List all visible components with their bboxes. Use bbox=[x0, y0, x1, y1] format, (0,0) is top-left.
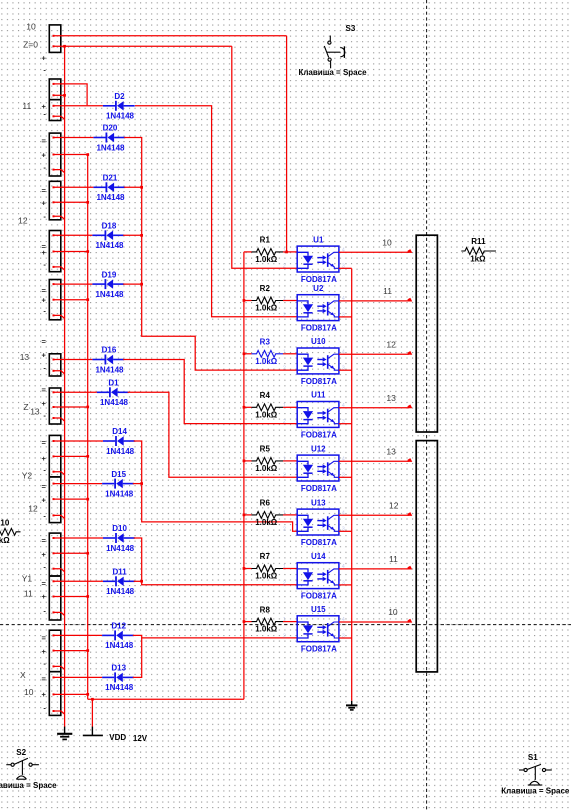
svg-text:1N4148: 1N4148 bbox=[106, 112, 135, 121]
wire bus to R7 bbox=[244, 568, 252, 570]
svg-text:1N4148: 1N4148 bbox=[95, 290, 124, 299]
wire J13 pin hook to bus1 bbox=[55, 666, 65, 669]
pin of J6 at y=299.7 bbox=[53, 299, 55, 301]
svg-text:R2: R2 bbox=[260, 284, 271, 293]
wire J12 pin to D11 bbox=[55, 580, 104, 582]
svg-text:1N4148: 1N4148 bbox=[106, 447, 135, 456]
connector J2a bbox=[49, 79, 61, 100]
svg-text:U1: U1 bbox=[313, 235, 324, 244]
pin of J8 at y=392.3 bbox=[53, 391, 55, 393]
wire U2.3 to gnd bus bbox=[339, 316, 352, 318]
svg-text:D21: D21 bbox=[103, 174, 118, 183]
wire U11.3 to gnd bus bbox=[339, 423, 352, 425]
pin of J2b at y=105.8 bbox=[53, 105, 55, 107]
wire R3 to U10.1 bbox=[283, 353, 297, 355]
wire J8 pin to D1 bbox=[55, 391, 97, 393]
svg-text:1: 1 bbox=[283, 403, 286, 409]
svg-text:R10: R10 bbox=[0, 519, 10, 528]
svg-text:+: + bbox=[42, 295, 47, 304]
opto-coupler U10 FOD817A bbox=[283, 337, 345, 386]
connector J-top bbox=[49, 25, 61, 53]
svg-text:2: 2 bbox=[283, 264, 286, 270]
svg-text:10: 10 bbox=[382, 238, 392, 248]
svg-text:13: 13 bbox=[30, 406, 40, 416]
pin of J12 at y=596.5 bbox=[53, 596, 55, 598]
pin of J3 at y=169.6 bbox=[53, 169, 55, 171]
wire J6 pin to D19 bbox=[55, 283, 93, 285]
pin of J4 at y=216.3 bbox=[53, 215, 55, 217]
connector J6 bbox=[49, 280, 61, 320]
svg-text:1: 1 bbox=[283, 456, 286, 462]
svg-text:FOD817A: FOD817A bbox=[301, 592, 337, 601]
svg-text:1.0kΩ: 1.0kΩ bbox=[255, 357, 278, 366]
svg-text:Клавиша = Space: Клавиша = Space bbox=[0, 781, 57, 790]
svg-text:+: + bbox=[42, 647, 47, 656]
svg-text:=: = bbox=[42, 438, 47, 447]
svg-text:+: + bbox=[42, 496, 47, 505]
junction bus2 y=154 bbox=[86, 153, 89, 156]
svg-text:=: = bbox=[42, 186, 47, 195]
svg-text:1: 1 bbox=[283, 247, 286, 253]
pin of J6 at y=315.4 bbox=[53, 314, 55, 316]
junction bus/R2 bbox=[243, 299, 246, 302]
wire bus to R3 bbox=[244, 353, 252, 355]
junction bus1/J2a.2 bbox=[63, 94, 66, 97]
wire U15.3 to gnd bus bbox=[339, 637, 352, 639]
wire J4 pin to bus2 bbox=[55, 201, 88, 203]
svg-text:+: + bbox=[42, 592, 47, 601]
connector J2b bbox=[49, 100, 61, 121]
svg-text:13: 13 bbox=[386, 393, 396, 403]
diode D18 1N4148 bbox=[92, 222, 124, 251]
connector J13 bbox=[49, 630, 61, 672]
pin of J5 at y=235.3 bbox=[53, 234, 55, 236]
svg-text:+: + bbox=[42, 150, 47, 159]
svg-text:S3: S3 bbox=[346, 24, 356, 33]
wire R2 to U2.1 bbox=[283, 300, 297, 302]
wire J8 pin to bus2 bbox=[55, 406, 88, 408]
svg-text:1: 1 bbox=[283, 349, 286, 355]
svg-text:+: + bbox=[42, 199, 47, 208]
svg-text:R8: R8 bbox=[260, 605, 271, 614]
wire J2b pin to D2 bbox=[55, 105, 103, 107]
connector J10 bbox=[49, 477, 61, 523]
wire J3 pin to bus2 bbox=[55, 154, 88, 156]
wire net D14 to U13.2 bbox=[134, 441, 298, 531]
junction bus2 y=553 bbox=[86, 552, 89, 555]
ground (right, opto emitters) bbox=[346, 701, 357, 710]
wire net Jtop.2 to U1.2 bbox=[232, 46, 297, 268]
svg-text:S1: S1 bbox=[528, 753, 538, 762]
svg-text:FOD817A: FOD817A bbox=[301, 377, 337, 386]
junction bus/R3 bbox=[243, 352, 246, 355]
pin of J11 at y=568.7 bbox=[53, 568, 55, 570]
svg-text:D16: D16 bbox=[102, 346, 117, 355]
svg-text:2: 2 bbox=[283, 633, 286, 639]
svg-text:+: + bbox=[42, 248, 47, 257]
svg-text:=: = bbox=[42, 634, 47, 643]
svg-text:1.0kΩ: 1.0kΩ bbox=[255, 518, 278, 527]
wire U1.4 output bbox=[339, 251, 409, 253]
wire net D16 to U11.2 bbox=[123, 360, 297, 424]
junction bus2 y=596 bbox=[86, 595, 89, 598]
svg-text:Y1: Y1 bbox=[22, 574, 33, 584]
output arrow 10 bbox=[408, 619, 413, 623]
svg-text:R4: R4 bbox=[260, 391, 271, 400]
wire J11 pin hook to bus1 bbox=[55, 569, 65, 572]
wire VDD rail horizontal y=699 bbox=[88, 698, 244, 700]
switch S3 (key = Space) bbox=[324, 36, 345, 69]
svg-text:=: = bbox=[42, 385, 47, 394]
wire J2b pin hook to bus1 bbox=[55, 116, 65, 119]
wire net Jtop.1 to R1 out bbox=[286, 36, 288, 252]
svg-text:U11: U11 bbox=[311, 391, 326, 400]
connector J14 bbox=[49, 672, 61, 716]
connector J4 bbox=[49, 181, 61, 220]
svg-text:FOD817A: FOD817A bbox=[301, 645, 337, 654]
wire bus to R8 bbox=[244, 621, 252, 623]
connector (right bottom) bbox=[416, 441, 437, 672]
output arrow 13 bbox=[408, 458, 413, 462]
wire U13.4 output bbox=[339, 514, 409, 516]
junction VDD tap bbox=[91, 698, 94, 701]
diode D14 1N4148 bbox=[103, 427, 135, 456]
svg-text:D1: D1 bbox=[108, 379, 119, 388]
svg-text:=: = bbox=[42, 137, 47, 146]
svg-text:R11: R11 bbox=[471, 237, 486, 246]
opto-coupler U15 FOD817A bbox=[283, 605, 345, 654]
wire J2a.2 to bus1 bbox=[55, 94, 65, 96]
connector J9 bbox=[49, 435, 61, 477]
svg-text:U15: U15 bbox=[311, 605, 326, 614]
wire U11.4 output bbox=[339, 407, 409, 409]
svg-text:1: 1 bbox=[283, 564, 286, 570]
svg-text:+: + bbox=[42, 399, 47, 408]
svg-text:FOD817A: FOD817A bbox=[301, 430, 337, 439]
diode D1 1N4148 bbox=[97, 379, 129, 408]
junction bus2 y=407 bbox=[86, 406, 89, 409]
svg-text:2: 2 bbox=[283, 366, 286, 372]
switch S2 (key = Space) bbox=[6, 758, 39, 779]
connector J11 bbox=[49, 533, 61, 576]
diode D21 1N4148 bbox=[93, 174, 125, 203]
pin of J8 at y=407.0 bbox=[53, 406, 55, 408]
wire J10 pin hook to bus1 bbox=[55, 515, 65, 518]
page boundary (horizontal dashed) bbox=[0, 624, 571, 626]
svg-text:11: 11 bbox=[383, 286, 392, 296]
wire net D2 to U2.2 bbox=[135, 106, 297, 317]
opto-coupler U2 FOD817A bbox=[283, 284, 345, 333]
svg-text:R1: R1 bbox=[260, 236, 271, 245]
wire J13 pin to bus2 bbox=[55, 650, 88, 652]
wire net D20 to U10.2 bbox=[124, 138, 297, 371]
wire U2.4 output bbox=[339, 300, 409, 302]
wire U1.3 to gnd bus bbox=[339, 267, 352, 269]
svg-text:FOD817A: FOD817A bbox=[301, 275, 337, 284]
svg-text:1.0kΩ: 1.0kΩ bbox=[255, 572, 278, 581]
wire D13 up to U15.2 net bbox=[133, 638, 142, 678]
wire U10.3 to gnd bus bbox=[339, 369, 352, 371]
wire J11 pin to D10 bbox=[55, 537, 104, 539]
svg-text:+: + bbox=[42, 351, 47, 360]
svg-text:VDD: VDD bbox=[109, 733, 126, 742]
pin of J11 at y=553.3 bbox=[53, 552, 55, 554]
svg-text:1.0kΩ: 1.0kΩ bbox=[255, 304, 278, 313]
wire U14.3 to gnd bus bbox=[339, 584, 352, 586]
diode D16 1N4148 bbox=[92, 346, 124, 375]
junction bus2 y=300 bbox=[86, 298, 89, 301]
wire R5 to U12.1 bbox=[283, 460, 297, 462]
svg-text:FOD817A: FOD817A bbox=[301, 538, 337, 547]
pin of J-top at y=46.3 bbox=[53, 45, 55, 47]
svg-text:1N4148: 1N4148 bbox=[106, 587, 135, 596]
pin of J9 at y=471.7 bbox=[53, 471, 55, 473]
ground (left, bottom of bus1) bbox=[57, 727, 72, 740]
pin of J10 at y=483.6 bbox=[53, 483, 55, 485]
wire J2a.1 elbow to D2 net bbox=[55, 84, 88, 105]
wire J5 pin to bus2 bbox=[55, 251, 88, 253]
pin of J12 at y=581.3 bbox=[53, 580, 55, 582]
svg-text:D15: D15 bbox=[111, 470, 126, 479]
wire U14.4 output bbox=[339, 568, 409, 570]
wire R1 to U1.1 bbox=[283, 251, 297, 253]
svg-text:12: 12 bbox=[389, 501, 399, 511]
svg-text:12: 12 bbox=[18, 216, 28, 226]
wire bus to R5 bbox=[244, 460, 252, 462]
svg-text:2: 2 bbox=[283, 312, 286, 318]
svg-text:Y2: Y2 bbox=[22, 470, 33, 480]
svg-text:D12: D12 bbox=[111, 622, 126, 631]
junction D21/bus bbox=[140, 186, 143, 189]
wire net D10 to U14.2 bbox=[134, 538, 298, 585]
connector J12 bbox=[49, 576, 61, 620]
svg-text:FOD817A: FOD817A bbox=[301, 484, 337, 493]
junction D11/bus bbox=[140, 580, 143, 583]
pin of J12 at y=612.4 bbox=[53, 611, 55, 613]
diode D20 1N4148 bbox=[93, 124, 125, 153]
svg-text:=: = bbox=[42, 286, 47, 295]
svg-text:S2: S2 bbox=[16, 748, 26, 757]
wire J7 pin hook to bus1 bbox=[55, 371, 65, 374]
junction R1out bbox=[285, 251, 288, 254]
svg-text:Клавиша = Space: Клавиша = Space bbox=[298, 68, 367, 77]
opto-coupler U11 FOD817A bbox=[283, 391, 345, 440]
svg-text:1: 1 bbox=[283, 617, 286, 623]
wire R4 to U11.1 bbox=[283, 406, 297, 408]
wire J9 pin to D14 bbox=[55, 440, 104, 442]
svg-text:1.0kΩ: 1.0kΩ bbox=[255, 410, 278, 419]
svg-text:D10: D10 bbox=[112, 524, 127, 533]
svg-text:D14: D14 bbox=[112, 427, 127, 436]
junction D18/bus bbox=[140, 234, 143, 237]
pin of J3 at y=154.5 bbox=[53, 154, 55, 156]
pin of J2a at y=83.9 bbox=[53, 83, 55, 85]
wire D18 out bbox=[123, 234, 142, 236]
pin of J7 at y=359.5 bbox=[53, 359, 55, 361]
wire D21 out bbox=[124, 186, 142, 188]
pin of J10 at y=515.4 bbox=[53, 514, 55, 516]
wire J7 pin to D16 bbox=[55, 359, 93, 361]
wire D15 out bbox=[133, 483, 142, 485]
page boundary (vertical dashed) bbox=[426, 0, 428, 812]
svg-text:D2: D2 bbox=[114, 92, 125, 101]
pin of J14 at y=694.4 bbox=[53, 693, 55, 695]
svg-text:11: 11 bbox=[22, 101, 31, 111]
svg-text:U14: U14 bbox=[311, 552, 326, 561]
diode D11 1N4148 bbox=[103, 568, 135, 597]
wire VDD drop bbox=[91, 699, 93, 727]
svg-text:2: 2 bbox=[283, 419, 286, 425]
svg-text:1N4148: 1N4148 bbox=[95, 241, 124, 250]
diode D13 1N4148 bbox=[102, 664, 134, 693]
junction bus1 top bbox=[63, 45, 66, 48]
power VDD 12V bbox=[83, 727, 103, 736]
wire J3 pin to D20 bbox=[55, 137, 94, 139]
svg-text:10: 10 bbox=[388, 607, 398, 617]
svg-text:2: 2 bbox=[283, 580, 286, 586]
pin of J10 at y=499.1 bbox=[53, 498, 55, 500]
pin of J8 at y=418.0 bbox=[53, 417, 55, 419]
svg-text:=: = bbox=[42, 536, 47, 545]
svg-text:1N4148: 1N4148 bbox=[105, 489, 134, 498]
svg-text:1N4148: 1N4148 bbox=[96, 143, 125, 152]
wire J-top.2 to x231 bbox=[55, 45, 232, 47]
wire net D12 to U15.2 bbox=[133, 635, 297, 638]
connector (right top) bbox=[416, 235, 437, 432]
svg-text:Z: Z bbox=[23, 402, 28, 412]
svg-text:D13: D13 bbox=[111, 664, 126, 673]
junction bus2 y=499 bbox=[86, 498, 89, 501]
svg-text:1kΩ: 1kΩ bbox=[470, 255, 486, 264]
wire bus to R6 bbox=[244, 514, 252, 516]
wire J3 pin hook to bus1 bbox=[55, 170, 65, 173]
junction bus/R8 bbox=[243, 620, 246, 623]
pin of J6 at y=284.1 bbox=[53, 283, 55, 285]
svg-text:+: + bbox=[42, 53, 47, 62]
wire J11 pin to bus2 bbox=[55, 552, 88, 554]
svg-text:D19: D19 bbox=[102, 270, 117, 279]
junction bus/R7 bbox=[243, 567, 246, 570]
pin of J2a at y=95.3 bbox=[53, 94, 55, 96]
junction D19/bus bbox=[140, 283, 143, 286]
pin of J14 at y=711.0 bbox=[53, 710, 55, 712]
connector J8 bbox=[49, 388, 61, 424]
svg-text:10: 10 bbox=[24, 687, 34, 697]
wire J4 pin hook to bus1 bbox=[55, 216, 65, 219]
output arrow 12 bbox=[408, 512, 413, 516]
svg-text:U13: U13 bbox=[311, 498, 326, 507]
svg-text:FOD817A: FOD817A bbox=[301, 324, 337, 333]
wire bus1 (x=64.6) to ground bbox=[64, 46, 66, 727]
svg-text:D20: D20 bbox=[103, 124, 118, 133]
connector J3 bbox=[49, 133, 61, 176]
pin of J9 at y=456.4 bbox=[53, 455, 55, 457]
svg-text:=: = bbox=[42, 482, 47, 491]
svg-text:1N4148: 1N4148 bbox=[100, 398, 129, 407]
output arrow 11 bbox=[408, 566, 413, 570]
svg-text:1N4148: 1N4148 bbox=[96, 193, 125, 202]
svg-text:1.0kΩ: 1.0kΩ bbox=[255, 464, 278, 473]
svg-text:10: 10 bbox=[26, 21, 36, 31]
output arrow 10 bbox=[408, 249, 413, 253]
svg-text:D18: D18 bbox=[102, 222, 117, 231]
wire bus to R1 bbox=[244, 251, 252, 253]
wire J5 pin hook to bus1 bbox=[55, 267, 65, 270]
wire U10.4 output bbox=[339, 353, 409, 355]
svg-text:11: 11 bbox=[389, 554, 398, 564]
output arrow 12 bbox=[408, 351, 413, 355]
opto-coupler U12 FOD817A bbox=[283, 444, 345, 493]
svg-text:1: 1 bbox=[283, 296, 286, 302]
wire U15.4 output bbox=[339, 621, 409, 623]
wire J5 pin to D18 bbox=[55, 234, 93, 236]
svg-text:=: = bbox=[42, 579, 47, 588]
svg-text:13: 13 bbox=[386, 447, 396, 457]
svg-text:12V: 12V bbox=[133, 734, 148, 743]
svg-text:D11: D11 bbox=[112, 568, 127, 577]
wire J4 pin to D21 bbox=[55, 186, 94, 188]
switch S1 (key = Space) bbox=[519, 764, 552, 785]
pin of J11 at y=538.0 bbox=[53, 537, 55, 539]
opto-coupler U1 FOD817A bbox=[283, 235, 345, 284]
pin of J4 at y=202.3 bbox=[53, 201, 55, 203]
wire J6 pin hook to bus1 bbox=[55, 315, 65, 318]
wire J8 pin hook to bus1 bbox=[55, 418, 65, 421]
svg-text:12: 12 bbox=[28, 504, 38, 514]
svg-text:2: 2 bbox=[283, 527, 286, 533]
svg-text:+: + bbox=[42, 690, 47, 699]
wire R7 to U14.1 bbox=[283, 568, 297, 570]
wire D19 out bbox=[123, 283, 142, 285]
pin of J13 at y=666.4 bbox=[53, 665, 55, 667]
wire U13.3 to gnd bus bbox=[339, 530, 352, 532]
pin of J2b at y=116.3 bbox=[53, 115, 55, 117]
svg-text:=: = bbox=[42, 675, 47, 684]
pin of J4 at y=187.3 bbox=[53, 186, 55, 188]
wire bus2 (x=87.7) bbox=[87, 155, 89, 700]
opto-coupler U13 FOD817A bbox=[283, 498, 345, 547]
svg-text:+: + bbox=[42, 550, 47, 559]
diode D12 1N4148 bbox=[102, 622, 134, 651]
wire J9 pin to bus2 bbox=[55, 455, 88, 457]
svg-text:12: 12 bbox=[386, 339, 396, 349]
svg-text:13: 13 bbox=[20, 352, 30, 362]
junction bus/R5 bbox=[243, 460, 246, 463]
pin of J7 at y=370.8 bbox=[53, 370, 55, 372]
svg-text:11: 11 bbox=[24, 589, 33, 599]
opto-coupler U14 FOD817A bbox=[283, 552, 345, 601]
output arrow 11 bbox=[408, 298, 413, 302]
junction bus2 y=456 bbox=[86, 455, 89, 458]
svg-text:R3: R3 bbox=[260, 338, 271, 347]
wire bus to R2 bbox=[244, 300, 252, 302]
pin of J5 at y=266.9 bbox=[53, 266, 55, 268]
junction bus/R6 bbox=[243, 514, 246, 517]
svg-text:R6: R6 bbox=[260, 499, 271, 508]
pin of J9 at y=441.0 bbox=[53, 440, 55, 442]
wire J6 pin to bus2 bbox=[55, 299, 88, 301]
wire J9 pin hook to bus1 bbox=[55, 472, 65, 475]
wire R8 to U15.1 bbox=[283, 621, 297, 623]
pin of J5 at y=251.5 bbox=[53, 251, 55, 253]
svg-text:2: 2 bbox=[283, 473, 286, 479]
svg-text:1.0kΩ: 1.0kΩ bbox=[255, 625, 278, 634]
wire J14 pin hook to bus1 bbox=[55, 711, 65, 714]
connector J5 bbox=[49, 231, 61, 272]
output arrow 13 bbox=[408, 405, 413, 409]
svg-text:+: + bbox=[42, 454, 47, 463]
junction bus2 y=202 bbox=[86, 201, 89, 204]
